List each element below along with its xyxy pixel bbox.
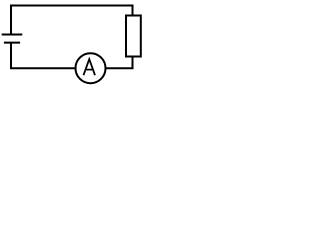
wire: ammeter to resistor bottom [106, 57, 133, 68]
battery cell: top plate (long, positive terminal) [2, 34, 23, 36]
ammeter: circle body [76, 53, 106, 83]
ammeter label "A": legs [84, 59, 96, 75]
ammeter label "A": crossbar [85, 69, 93, 71]
resistor: rectangle body [126, 16, 141, 57]
battery cell: bottom plate (short, negative terminal) [4, 42, 20, 44]
wire: battery bottom lead and bottom rail to ammeter [11, 43, 76, 69]
wire: battery top lead, top rail, right drop to resistor [11, 6, 133, 35]
